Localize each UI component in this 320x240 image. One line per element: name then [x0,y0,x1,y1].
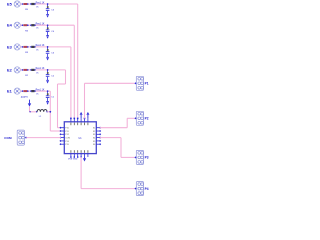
ferrite bead FB4 [31,24,34,26]
ground row E1 [47,98,49,101]
capacitor C2 [47,70,49,74]
svg-text:Res1 1K: Res1 1K [36,68,45,70]
connector P4 [136,182,143,196]
op IC U1 body [64,122,96,154]
power pin arrow up x=81.1 [80,115,82,119]
ferrite bead FB1 [31,90,34,92]
svg-text:COM: COM [4,136,12,140]
svg-text:COM: COM [65,138,70,140]
wire row E2 horizontal [20,69,65,71]
svg-text:P3: P3 [145,156,149,160]
resistor R4 [23,24,27,26]
IC top pin x=77.7 [77,118,79,121]
ground row E5 [47,11,49,14]
IC right pin y=137.6 [96,137,99,139]
IC top pin x=74.3 [73,118,75,121]
junction dot [27,24,29,26]
node junction cap tap [47,24,49,26]
resistor R1 [23,90,27,92]
junction node [49,111,51,113]
ferrite bead FB3 [31,46,34,48]
ground IC bottom [84,157,86,158]
ferrite bead FB5 [31,3,34,5]
node junction cap tap [47,69,49,71]
ground row E4 [47,32,49,35]
IC bottom pin x=77.7 [77,154,79,157]
svg-text:E2: E2 [7,67,13,72]
wire row E4 horizontal [20,24,74,26]
node junction cap tap [47,90,49,92]
svg-text:VSS GND: VSS GND [68,159,78,161]
svg-text:P1: P1 [145,82,149,86]
IC top pin x=81.1 [80,118,82,121]
wire inductor to node [47,111,50,113]
IC left pin y=144.2 [61,143,64,145]
power pin arrow up x=87.9 [87,115,89,119]
power flag arrow [29,100,31,104]
connector P2 [136,111,143,125]
IC left pin y=127.7 [61,127,64,129]
pin dot [22,3,24,5]
svg-text:Res1 1K: Res1 1K [36,24,45,26]
IC bottom pin x=84.5 [84,154,86,157]
wire IC to P1 [84,83,86,118]
svg-text:E4: E4 [7,23,13,28]
IC bottom pin x=74.3 [73,154,75,157]
junction dot [27,90,29,92]
wire IC to P4 [80,157,82,189]
junction dot [27,69,29,71]
IC bottom pin x=70.9 [70,154,72,157]
IC top pin x=87.9 [87,118,89,121]
svg-text:Res1 1K: Res1 1K [36,89,45,91]
IC right pin y=140.9 [96,140,99,142]
resistor R5 [23,3,27,5]
wire E4 vertical to IC pin [73,25,75,118]
wire E1 to IC left pin 2 [49,91,51,131]
capacitor C4 [47,25,49,29]
connector P3 [136,150,143,164]
IC bottom pin x=81.1 [80,154,82,157]
wire row E5 horizontal [20,3,77,5]
connector P1 [136,76,143,90]
inductor L1 [36,111,38,113]
IC right pin y=144.2 [96,143,99,145]
IC right pin y=127.7 [96,127,99,129]
pin dot [22,46,24,48]
node junction cap tap [47,3,49,5]
IC top pin x=84.5 [84,118,86,121]
svg-text:E3: E3 [7,44,13,49]
ground row E2 [47,77,49,80]
wire power to inductor [29,107,31,112]
resistor R2 [23,69,27,71]
IC bottom pin x=87.9 [87,154,89,157]
svg-text:Res1 1K: Res1 1K [36,45,45,47]
resistor R3 [23,46,27,48]
junction dot [27,46,29,48]
svg-text:3V3: 3V3 [21,97,26,99]
IC left pin y=140.9 [61,140,64,142]
svg-text:P2: P2 [145,117,149,121]
IC left pin y=137.6 [61,137,64,139]
wire E2 jog to IC left pin 1 [65,70,67,84]
pin dot [22,90,24,92]
IC top pin x=70.9 [70,118,72,121]
wire COM to IC [26,137,61,139]
svg-text:Res1 1K: Res1 1K [36,2,45,4]
pin dot [22,24,24,26]
wire IC to P2 [100,127,128,129]
wire row E1 horizontal [20,90,50,92]
IC left pin y=131.0 [61,130,64,132]
capacitor C1 [47,91,49,95]
wire E5 vertical to IC pin [77,4,79,118]
svg-text:E5: E5 [7,2,13,7]
pin dot [22,69,24,71]
wire IC to P3 [100,137,121,139]
junction dot [27,3,29,5]
ferrite bead FB2 [31,69,34,71]
connector COM [17,130,24,145]
IC right pin y=131.0 [96,130,99,132]
capacitor C3 [47,47,49,51]
ground row E3 [47,54,49,57]
IC left pin y=134.3 [61,133,64,135]
capacitor C5 [47,4,49,8]
node junction cap tap [47,46,49,48]
wire row E3 horizontal [20,46,71,48]
svg-text:P4: P4 [145,187,149,191]
wire E3 vertical to IC pin [70,47,72,119]
IC right pin y=134.3 [96,133,99,135]
svg-text:E1: E1 [7,89,13,94]
